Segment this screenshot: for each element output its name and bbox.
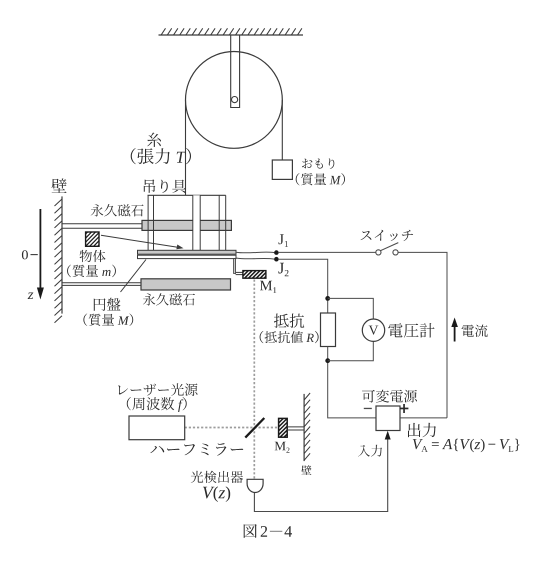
wire: switch to top-right corner and down <box>398 252 447 418</box>
hanger top bar <box>148 194 226 196</box>
hanger rod B (middle, in front of magnet) <box>193 195 200 250</box>
wall (right of M2) line <box>303 394 305 461</box>
weight block (mass M) <box>272 160 292 179</box>
label 壁 (wall top-left) <box>52 179 67 193</box>
label z axis <box>28 293 34 300</box>
switch lever <box>381 243 399 251</box>
permanent magnet (upper) <box>142 220 231 230</box>
label 可変電源 (variable supply) <box>362 390 417 403</box>
label 0 (origin) <box>22 250 28 259</box>
switch contact left <box>376 250 381 255</box>
hanger rod C (right) <box>218 195 220 250</box>
node: resistor bottom junction dot <box>325 358 330 363</box>
mirror M2 (hatched) <box>261 418 307 437</box>
rod from mirror M2 to wall <box>287 426 304 428</box>
ceiling hatching <box>161 28 302 35</box>
label 入力 (input) <box>358 445 382 457</box>
label formula VA=A{V(z)-VL} <box>413 439 520 453</box>
node: origin 0 tick <box>31 254 38 256</box>
support rod from wall to lower magnet <box>62 282 141 284</box>
input arrowhead <box>385 431 391 440</box>
pulley support bar <box>231 35 240 108</box>
half mirror (diagonal) <box>245 418 264 438</box>
photodetector dome <box>247 479 263 492</box>
wire: string left segment (pulley to hanger) <box>185 100 187 195</box>
label 電圧計 (voltmeter) <box>388 323 434 338</box>
node J1 (junction dot) <box>274 250 279 255</box>
wire: J1 to switch <box>279 251 376 253</box>
label 抵抗 (resistor) <box>274 314 304 328</box>
label （質量 m） object <box>67 265 116 278</box>
disk lower plate <box>138 255 237 258</box>
pulley axle hub <box>232 97 238 103</box>
wire: resistor bottom down to power supply <box>328 347 376 418</box>
wire: laser beam horizontal (laser to mirror M2) <box>185 427 279 429</box>
label M2 mirror <box>275 442 290 453</box>
label J2 node <box>278 263 288 276</box>
wire: string right segment (pulley to weight) <box>281 100 283 160</box>
node: resistor top junction dot <box>325 296 330 301</box>
label J1 node <box>279 234 289 247</box>
wire: power supply + to right riser <box>400 417 447 419</box>
label スイッチ (switch) <box>361 230 414 241</box>
wire: voltmeter branch top <box>328 298 374 319</box>
label 光検出器 (photodetector) <box>191 471 243 483</box>
disk top plate (mass M) <box>138 250 237 254</box>
laser source box <box>129 416 185 440</box>
pulley wheel <box>186 52 283 149</box>
label ハーフミラー (half mirror) <box>150 443 243 456</box>
support rod from wall to upper magnet <box>62 223 142 225</box>
label V in voltmeter <box>369 326 379 335</box>
label （張力 T） <box>131 148 191 164</box>
label 図２−４ (figure number) <box>244 524 292 538</box>
permanent magnet (lower) <box>141 279 231 290</box>
label 円盤 (disk) <box>94 298 121 311</box>
switch contact right <box>393 250 398 255</box>
wire: voltmeter branch bottom <box>328 342 374 361</box>
label M1 mirror <box>260 281 276 293</box>
label （質量 M） disk <box>83 314 133 327</box>
wire: disk to node J2 <box>236 258 274 259</box>
label 出力 (output) <box>408 423 436 437</box>
label 永久磁石 (lower magnet) <box>143 293 195 305</box>
wire: J2 right then down to resistor branch <box>279 259 328 313</box>
minus terminal sign <box>364 408 372 409</box>
pointer line from disk label <box>121 260 147 293</box>
label 永久磁石 (upper magnet) <box>91 204 144 216</box>
label 吊り具 (hanger) <box>144 179 186 193</box>
mirror M1 (hatched) <box>233 271 280 279</box>
voltmeter circle <box>362 319 384 341</box>
label 糸 (string) <box>147 133 161 148</box>
pointer arrow from object label to disk <box>101 235 180 247</box>
bracket from disk down to mirror M1 <box>234 259 236 274</box>
label おもり (weight) <box>302 158 334 169</box>
wall (left) line <box>61 196 63 313</box>
label 壁 (wall bottom) <box>301 465 311 475</box>
wire: photodetector output to power supply input <box>254 437 387 512</box>
object block (mass m), hatched <box>66 232 136 246</box>
z-axis arrow <box>39 209 41 289</box>
label 物体 (object) <box>80 250 106 262</box>
hanger rod A (left) <box>147 195 149 250</box>
current direction arrow <box>454 325 456 342</box>
wall (right) hatching <box>304 393 310 460</box>
label V(z) photodetector output <box>203 486 230 502</box>
wire: disk to node J1 <box>236 251 274 254</box>
variable power supply box <box>376 406 400 431</box>
node J2 (junction dot) <box>274 257 279 262</box>
label レーザー光源 (laser source) <box>118 383 198 396</box>
label （質量 M） weight <box>296 173 345 185</box>
label （抵抗値 R） <box>260 331 319 343</box>
plus terminal sign <box>400 408 409 410</box>
resistor (value R) <box>321 313 336 347</box>
ceiling line <box>159 34 304 36</box>
wall (left) hatching <box>55 199 63 323</box>
label 電流 (current) <box>462 325 488 337</box>
wire: laser beam vertical (disk to photodetector) <box>253 280 255 480</box>
label （周波数 f） <box>127 397 187 412</box>
